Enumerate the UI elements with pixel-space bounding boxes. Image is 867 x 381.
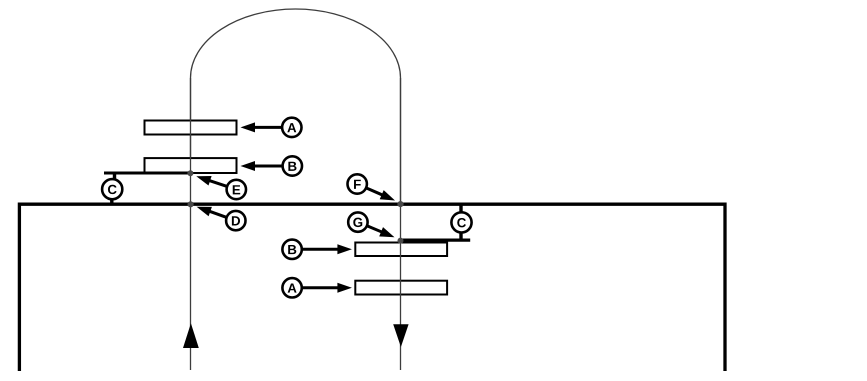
pointer arrow to B right [302, 248, 339, 251]
pointer arrow to A left [254, 126, 283, 129]
circle label A right [282, 278, 301, 297]
rectangle B right (lower nozzle) [355, 243, 447, 257]
node dot G (door edge right) [398, 238, 404, 244]
right vertical flow line [400, 78, 402, 370]
hinge tick above circle C right [459, 205, 462, 212]
door panel left (thick line) [104, 171, 191, 174]
circle label C left [102, 179, 122, 199]
door panel right (thick line) [400, 238, 471, 241]
doorway arch outline [191, 9, 401, 203]
pointer arrow to D dot [209, 211, 227, 217]
pointer arrow to A right [302, 286, 339, 289]
circle label E [227, 180, 246, 199]
hinge tick below circle C left [110, 200, 113, 204]
left vertical flow line [190, 78, 192, 370]
downward airflow arrowhead [393, 324, 408, 347]
node dot D (wall junction left) [188, 201, 194, 207]
pointer arrow to G dot [367, 226, 383, 233]
circle label D [226, 211, 245, 230]
pointer arrow to B left [254, 165, 283, 168]
pointer arrow to F dot [366, 188, 383, 195]
rectangle A right (upper nozzle) [355, 281, 447, 295]
circle label B left [283, 156, 302, 175]
node dot E (door edge left) [187, 170, 193, 176]
rectangle A left (upper nozzle) [145, 121, 237, 135]
pointer arrow to E dot [209, 180, 228, 186]
rectangle B left (lower nozzle) [145, 158, 237, 173]
hinge tick above circle C left [113, 174, 116, 179]
circle label F [348, 174, 367, 193]
room wall outline [19, 204, 725, 371]
hinge tick below circle C right [459, 233, 462, 239]
circle label B right [282, 240, 301, 259]
circle label G [348, 212, 367, 231]
node dot F (wall junction right) [397, 201, 403, 207]
circle label A left [282, 118, 301, 137]
circle label C right [451, 212, 471, 232]
upward airflow arrowhead [183, 323, 199, 348]
